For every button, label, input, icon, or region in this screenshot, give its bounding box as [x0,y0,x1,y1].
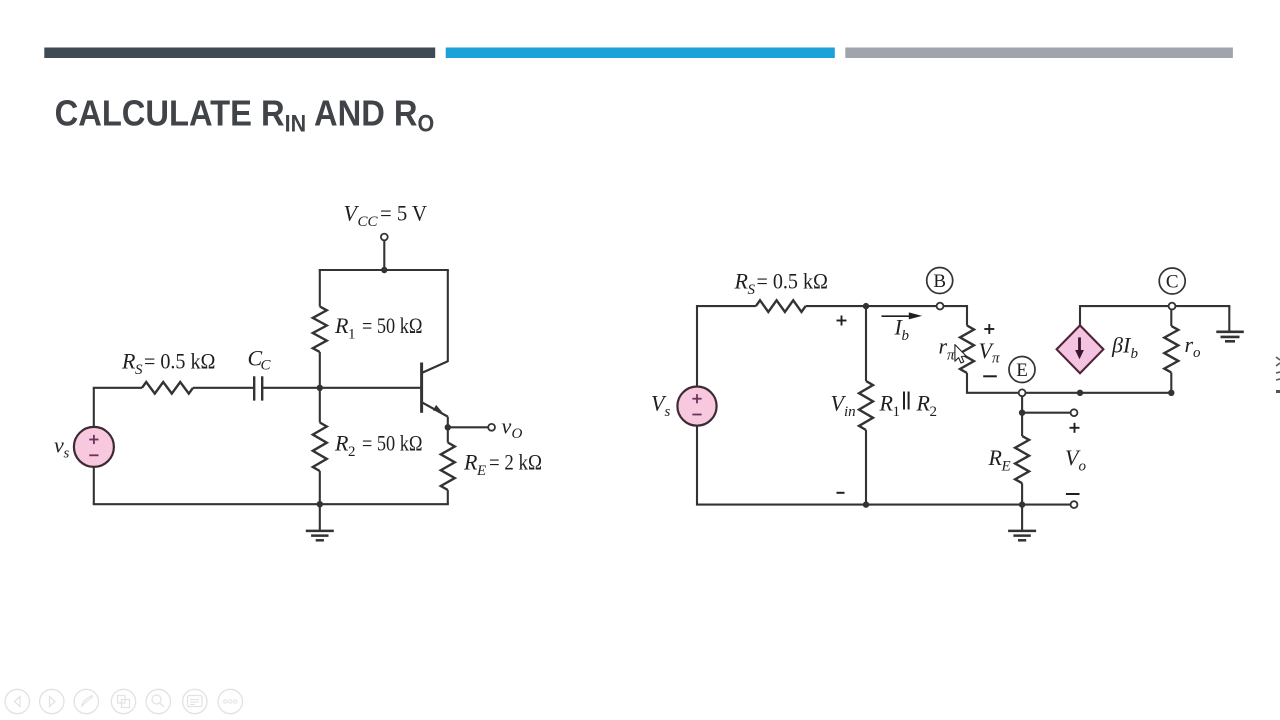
wire r_pi to E rail [966,373,968,393]
resistor RE [441,443,455,491]
svg-text:b: b [1131,346,1139,362]
svg-text:s: s [64,446,70,462]
wire capacitor to base node [262,387,320,389]
svg-text:R: R [734,269,749,294]
label + (Vpi) [984,328,994,330]
resistor RS (small-signal) [756,300,806,312]
source vs [74,427,114,467]
player icon more [218,689,242,713]
svg-text:s: s [665,404,671,420]
wire r_o branch [1170,310,1172,327]
wire RS to B [806,305,937,307]
svg-text:R: R [334,431,349,456]
node Vo+ terminal [1071,409,1078,416]
svg-text:o: o [1193,345,1201,361]
svg-text:2: 2 [930,404,938,420]
node junction bottom of RE [1019,501,1025,507]
node junction bottom [317,501,323,507]
wire dep source top [1079,305,1081,325]
svg-text:b: b [902,328,910,344]
resistor R2 [313,423,327,472]
wire base node to transistor [320,387,422,389]
svg-text:E: E [1016,360,1028,381]
wire to Vo+ terminal [1022,412,1071,414]
svg-text:= 0.5 kΩ: = 0.5 kΩ [757,269,829,294]
node vo terminal [488,424,495,431]
wire R1par to bottom [865,430,867,505]
svg-text:C: C [1166,272,1179,293]
wire E to RE [1021,413,1023,436]
wire source bottom [93,467,95,504]
wire emitter to vo [448,426,488,428]
wire emitter to RE [447,427,449,442]
wire right ground drop [1228,306,1230,331]
wire top rail right [1080,305,1169,307]
wire Rs to capacitor [193,387,253,389]
resistor RE (small-signal) [1015,436,1029,483]
dependent source beta*Ib [1057,325,1104,373]
player icon zoom [146,689,170,713]
wire Vcc stem [383,241,385,270]
mouse cursor [955,345,966,363]
wire R2 branch upper [319,388,321,423]
svg-text:CALCULATE RIN AND RO: CALCULATE RIN AND RO [55,94,435,137]
svg-text:O: O [512,426,523,442]
wire E rail [966,392,1019,394]
node junction bottom of R1par [863,501,869,507]
svg-text:1: 1 [348,327,356,343]
wire bottom rail [93,503,449,505]
svg-text:= 0.5 kΩ: = 0.5 kΩ [144,349,216,374]
wire top rail to RS [696,305,756,307]
resistor R1 parallel R2 [859,381,873,430]
svg-text:= 5 V: = 5 V [380,201,427,226]
svg-text:E: E [1001,459,1011,475]
node junction emitter [445,424,451,430]
svg-text:= 50 kΩ: = 50 kΩ [362,313,423,338]
label + (Vo) [1070,427,1080,429]
arrow Ib [882,315,911,317]
node junction Vcc/top-rail [381,267,387,273]
svg-text:R: R [121,349,136,374]
node E circled label [1009,357,1035,383]
wire RE to bottom rail [447,490,449,504]
label - (Vpi) [983,375,997,377]
label - (Vo) [1066,493,1080,495]
player icon forward [40,689,64,713]
node E terminal [1019,389,1026,396]
svg-text:in: in [844,404,856,420]
ground right [1216,330,1244,333]
node B circled label [927,268,953,294]
ground [319,504,321,530]
transistor Q1 collector [422,361,448,373]
edge marks [1276,357,1280,380]
slide title [55,94,435,137]
wire E down [1021,396,1023,413]
node C terminal [1169,303,1176,310]
wire r_o to E rail [1170,373,1172,393]
player icon pen [74,689,98,713]
wire source to Rs [93,387,142,389]
label - (Vin) [837,492,845,494]
source Vs [677,387,716,426]
wire B to r_pi [943,305,968,307]
ground (small-signal) [1021,505,1023,531]
resistor r_pi [960,326,974,374]
resistor RS [142,382,193,394]
svg-text:1: 1 [893,404,901,420]
svg-text:R: R [916,391,931,416]
label + (Vin) [837,320,847,322]
wire Vs bottom [696,426,698,505]
svg-text:βI: βI [1111,333,1132,358]
svg-text:= 50 kΩ: = 50 kΩ [362,431,423,456]
svg-text:o: o [1079,459,1087,475]
wire Vs top [696,306,698,387]
svg-text:π: π [947,348,955,364]
transistor Q1 base bar [420,363,423,413]
wire RE to bottom rail [1021,483,1023,504]
svg-text:R: R [988,445,1003,470]
wire R1 to base rail [319,352,321,388]
node junction base [317,385,323,391]
wire bottom rail (small-signal) [696,504,1071,506]
player icon slides [111,689,135,713]
header bar blue [446,48,835,59]
svg-text:S: S [135,362,143,378]
player icon display [183,689,207,713]
svg-text:R: R [463,450,478,475]
transistor Q1 emitter with arrow [422,402,448,416]
node B terminal [937,303,944,310]
svg-text:= 2 kΩ: = 2 kΩ [489,450,542,475]
svg-text:v: v [502,414,512,439]
svg-text:v: v [54,433,64,458]
header bar dark [44,48,435,59]
wire R2 to bottom rail [319,471,321,504]
svg-text:R: R [334,313,349,338]
svg-text:C: C [261,358,272,374]
resistor r_o [1164,326,1178,373]
resistor R1 [313,307,327,353]
svg-text:E: E [476,463,486,479]
header bar gray [845,48,1233,59]
wire R1 branch upper [319,270,321,307]
node junction E/Vo [1019,410,1025,416]
wire source top [93,388,95,427]
svg-text:S: S [748,282,756,298]
svg-text:π: π [992,351,1000,367]
wire R1par branch [865,306,867,381]
node Vcc terminal [381,234,388,241]
node junction dep source bottom [1077,390,1083,396]
svg-text:2: 2 [348,444,356,460]
node C circled label [1159,268,1185,294]
wire top rail [319,269,449,271]
node junction top of R1par [863,303,869,309]
svg-text:CC: CC [358,214,379,230]
node Vo- terminal [1071,501,1078,508]
capacitor CC [253,376,255,400]
svg-text:R: R [879,391,894,416]
svg-text:B: B [933,271,946,292]
player icon back [5,689,29,713]
node junction r_o bottom [1168,390,1174,396]
